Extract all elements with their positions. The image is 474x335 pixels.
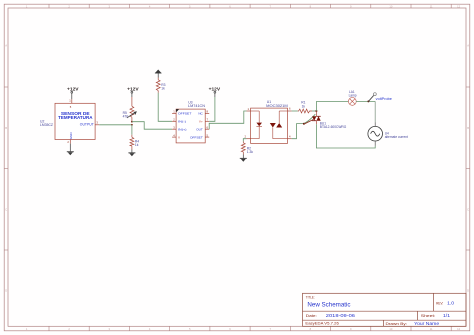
svg-text:A: A <box>5 44 7 48</box>
svg-text:1k: 1k <box>135 143 139 147</box>
svg-text:1k: 1k <box>302 104 306 108</box>
R5 wiper arrow <box>127 112 136 118</box>
wire gate arc <box>304 114 315 123</box>
svg-text:12: 12 <box>457 4 460 8</box>
+12V flag (op-amp) <box>209 87 221 97</box>
svg-text:GND: GND <box>69 132 73 140</box>
svg-text:New Schematic: New Schematic <box>307 302 351 309</box>
sensor pin 1 (top) <box>69 98 72 109</box>
svg-text:IN(+): IN(+) <box>178 127 187 131</box>
resistor R5 (pot) <box>130 97 134 122</box>
svg-text:B: B <box>467 126 469 130</box>
svg-text:BTA12-600CWRG: BTA12-600CWRG <box>320 125 347 129</box>
svg-text:OFFSET: OFFSET <box>178 112 192 116</box>
opto internal triac <box>273 111 288 139</box>
optocoupler U1 body <box>251 108 288 143</box>
svg-text:LM35CZ: LM35CZ <box>40 123 53 127</box>
svg-text:D: D <box>5 289 7 293</box>
svg-text:TITLE:: TITLE: <box>306 295 315 299</box>
VCC arrow flag (R3) <box>155 70 162 78</box>
title block <box>303 293 467 326</box>
op-amp pin numbers <box>173 110 208 138</box>
svg-text:D: D <box>467 289 469 293</box>
svg-text:+12V: +12V <box>67 87 79 92</box>
wire R1 to MT2 node <box>312 110 316 112</box>
sensor pin 3 (output) <box>95 121 99 125</box>
gate junction <box>303 123 305 125</box>
wire bottom loop <box>316 124 375 148</box>
svg-text:REV:: REV: <box>436 301 443 306</box>
wire lamp line left <box>316 100 348 102</box>
op-amp pin stubs <box>172 113 209 137</box>
svg-text:10: 10 <box>389 4 392 8</box>
svg-text:10: 10 <box>389 327 392 331</box>
svg-text:1.0: 1.0 <box>447 301 455 306</box>
svg-text:Sheet:: Sheet: <box>421 313 436 318</box>
svg-text:OFFSET: OFFSET <box>190 135 203 139</box>
svg-text:V+: V+ <box>199 120 203 124</box>
wire R3 to IN- <box>158 93 172 122</box>
svg-text:Date:: Date: <box>306 313 317 318</box>
resistor R2 <box>241 142 245 155</box>
wire opto pin6 to R1 <box>292 110 298 112</box>
svg-text:LM741CN: LM741CN <box>188 104 206 108</box>
svg-text:voltProbe: voltProbe <box>376 97 392 101</box>
svg-text:TEMPERATURA: TEMPERATURA <box>58 115 92 120</box>
svg-text:B: B <box>5 126 7 130</box>
svg-text:Your Name: Your Name <box>414 321 440 326</box>
op-amp U3 ref labels <box>188 100 206 108</box>
resistor R3 <box>156 78 160 93</box>
ground (R4) <box>128 150 135 157</box>
wire sensor output to node <box>99 124 132 126</box>
triac BU1 <box>304 111 320 124</box>
svg-text:A: A <box>467 44 469 48</box>
op-amp U3 body <box>176 109 205 143</box>
svg-text:1.3k: 1.3k <box>247 150 254 154</box>
svg-text:MOC3021M: MOC3021M <box>266 104 288 108</box>
svg-text:47K: 47K <box>123 115 130 119</box>
svg-text:C: C <box>5 207 7 211</box>
voltProbe <box>367 93 392 103</box>
op-amp pin names <box>178 112 204 140</box>
sensor U2 ref labels <box>40 119 53 127</box>
svg-text:1/1: 1/1 <box>443 313 451 318</box>
wire opto pin4 to gate <box>292 124 304 139</box>
wire MT2 node up to lamp line <box>315 101 317 111</box>
wire right side down <box>374 101 376 122</box>
svg-text:NC: NC <box>198 112 203 116</box>
svg-text:C: C <box>467 207 469 211</box>
wire OUT to opto pin1 <box>209 111 246 129</box>
svg-text:Drawn By:: Drawn By: <box>386 322 408 326</box>
opto U1 ref labels <box>266 100 288 108</box>
node MT2 junction <box>315 110 317 112</box>
sensor U2 body <box>55 103 95 139</box>
+12V flag (sensor) <box>67 87 79 100</box>
wire lamp to corner <box>356 100 375 102</box>
resistor R4 <box>130 135 134 150</box>
+12V flag (R5) <box>127 87 139 97</box>
svg-text:+12V: +12V <box>209 87 221 92</box>
wire node to IN+ <box>132 122 172 130</box>
svg-text:alternate current: alternate current <box>385 135 408 139</box>
opto internal LED <box>251 111 262 139</box>
wire node down to R4 <box>131 125 133 135</box>
svg-text:EasyEDA V5.7.26: EasyEDA V5.7.26 <box>305 322 338 326</box>
node junction dots <box>131 121 133 123</box>
svg-text:IN(-): IN(-) <box>178 120 186 124</box>
svg-text:12: 12 <box>457 327 460 331</box>
svg-text:+12V: +12V <box>127 87 139 92</box>
resistor R1 <box>298 109 312 113</box>
R5 labels <box>123 111 130 119</box>
svg-text:Lamp: Lamp <box>349 94 357 98</box>
AC source U4 <box>368 122 383 146</box>
ground (R2) <box>240 155 247 162</box>
lamp LA1 <box>348 98 356 106</box>
title block text <box>305 295 454 326</box>
wire opto pin2 to R2 <box>243 139 246 142</box>
svg-text:OUT: OUT <box>196 127 203 131</box>
sensor pin 2 (bottom) <box>67 140 70 145</box>
svg-text:2018-09-06: 2018-09-06 <box>326 313 356 318</box>
svg-text:OUTPUT: OUTPUT <box>80 123 94 127</box>
opto pin stubs + numbers <box>247 111 292 139</box>
ground (sensor) <box>67 144 74 156</box>
wire +12V to V+ <box>209 97 215 121</box>
svg-text:1k: 1k <box>161 87 165 91</box>
